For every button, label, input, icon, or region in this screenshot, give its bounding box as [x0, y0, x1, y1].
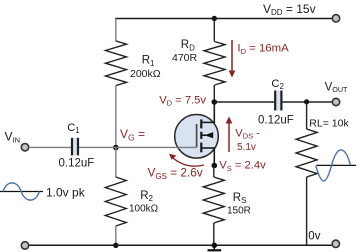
svg-text:100kΩ: 100kΩ: [129, 204, 159, 215]
svg-text:RL= 10k: RL= 10k: [309, 117, 349, 129]
input sine wave: [0, 183, 43, 200]
wire R2 bottom: [115, 226, 117, 245]
wire drain vertical: [213, 102, 215, 123]
svg-text:5.1v: 5.1v: [237, 142, 256, 153]
transistor Q1 MOSFET body: [175, 115, 219, 159]
resistor RD: [204, 19, 225, 103]
svg-text:ID = 16mA: ID = 16mA: [237, 43, 289, 56]
svg-text:150R: 150R: [227, 206, 251, 217]
transistor Q1 channel segment source: [200, 143, 202, 153]
node VG junction dot: [113, 145, 119, 151]
svg-text:0.12uF: 0.12uF: [258, 115, 294, 127]
wire C2 to VOUT: [282, 101, 332, 103]
transistor Q1 substrate arrow: [202, 132, 213, 138]
terminal VIN: [21, 144, 28, 151]
node junction R2 bottom: [113, 243, 118, 248]
svg-text:0v: 0v: [308, 231, 320, 243]
terminal VDD: [332, 15, 339, 22]
svg-text:1.0v pk: 1.0v pk: [46, 186, 86, 200]
resistor RS: [203, 166, 224, 246]
transistor Q1 drain stub: [201, 121, 214, 123]
wire VG node to R2: [115, 148, 117, 178]
capacitor C2: [275, 91, 281, 111]
node junction top of RD: [212, 16, 217, 21]
resistor R1: [106, 41, 127, 86]
wire R1 branch upper: [115, 19, 117, 42]
voltage arrow VDS: [226, 117, 233, 153]
node junction RL top: [304, 99, 309, 104]
wire VIN to C1: [29, 146, 71, 148]
ground symbol: [208, 245, 222, 250]
transistor Q1 channel segment body: [200, 132, 202, 139]
wire VD node to C2: [214, 101, 274, 103]
terminal ground right 0v: [332, 240, 339, 247]
terminal VOUT: [332, 98, 339, 105]
svg-text:200kΩ: 200kΩ: [130, 68, 161, 80]
transistor Q1 channel segment drain: [200, 119, 202, 128]
wire source vertical: [213, 147, 215, 165]
terminal ground left: [21, 242, 28, 249]
output sine wave: [316, 150, 356, 181]
node junction RS bottom: [212, 243, 218, 249]
svg-text:VD = 7.5v: VD = 7.5v: [159, 94, 206, 107]
svg-text:VS = 2.4v: VS = 2.4v: [219, 160, 266, 173]
voltage arrow VGS curved: [169, 154, 204, 167]
svg-text:0.12uF: 0.12uF: [59, 157, 95, 169]
node VS junction dot: [212, 163, 218, 169]
wire top rail VDD: [115, 18, 331, 20]
transistor Q1 source stub: [201, 147, 214, 149]
resistor RL: [296, 102, 317, 245]
wire R1 bottom to VG node: [115, 86, 117, 148]
wire bottom rail: [29, 244, 332, 246]
svg-text:470R: 470R: [172, 52, 198, 64]
wire C1 to gate: [79, 146, 197, 148]
resistor R2: [105, 177, 126, 226]
node VD junction dot: [212, 99, 218, 105]
current arrow ID: [229, 40, 236, 78]
svg-text:VDD = 15v: VDD = 15v: [263, 2, 316, 17]
transistor Q1 gate bar: [196, 124, 198, 147]
capacitor C1: [72, 138, 78, 156]
